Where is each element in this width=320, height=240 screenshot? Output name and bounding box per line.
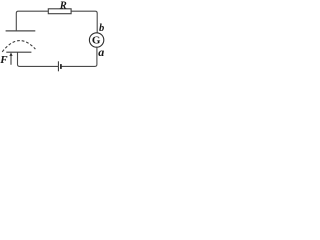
wire top-left segment <box>16 11 48 31</box>
svg-text:b: b <box>99 23 104 34</box>
svg-text:R: R <box>59 0 67 11</box>
battery cell <box>57 61 59 71</box>
resistor R <box>48 9 71 14</box>
diaphragm dashed arc <box>2 41 35 52</box>
diaphragm base plate <box>6 51 31 53</box>
force arrow F <box>10 55 12 65</box>
capacitor fixed top plate <box>6 30 36 32</box>
wire right-lower segment <box>61 47 97 66</box>
wire top-right segment <box>71 11 97 33</box>
svg-text:a: a <box>98 45 104 59</box>
galvanometer G <box>89 33 103 47</box>
svg-text:F: F <box>0 54 8 66</box>
wire bottom-left segment <box>18 52 59 66</box>
